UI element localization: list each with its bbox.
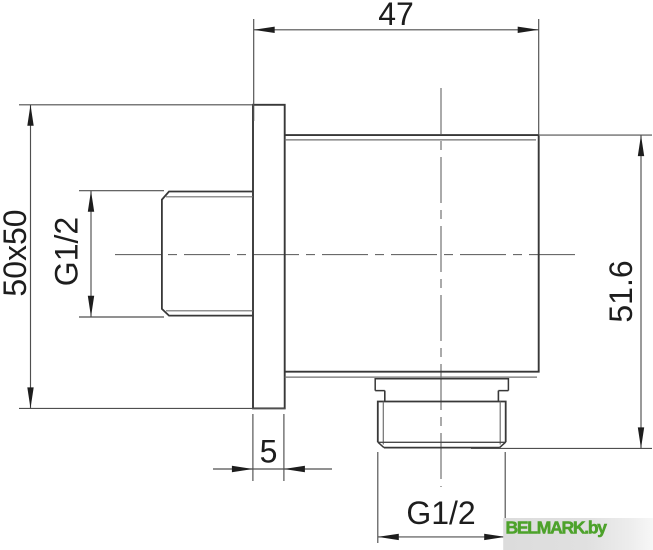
svg-text:47: 47 xyxy=(378,0,414,32)
dimension 47 xyxy=(254,19,539,135)
svg-text:BELMARK.by: BELMARK.by xyxy=(506,518,608,538)
svg-text:5: 5 xyxy=(260,434,278,470)
svg-text:51.6: 51.6 xyxy=(603,260,639,322)
svg-text:G1/2: G1/2 xyxy=(406,495,475,531)
body xyxy=(285,135,539,372)
bottom neck right xyxy=(497,391,499,402)
nipple bottom face xyxy=(384,447,500,449)
dimension 50x50 xyxy=(19,105,285,409)
bottom flange xyxy=(375,379,508,391)
wall plate xyxy=(253,105,285,409)
dimension G1/2 bottom xyxy=(378,452,505,543)
bottom nipple G1/2 xyxy=(378,402,506,443)
svg-text:G1/2: G1/2 xyxy=(49,217,85,286)
centerline horizontal xyxy=(115,254,577,256)
body top chamfer line xyxy=(285,139,536,141)
boss thread root line bottom xyxy=(166,310,253,312)
body bottom chamfer line xyxy=(285,376,537,378)
left thread boss G1/2 xyxy=(162,192,253,316)
nipple thread root line left xyxy=(382,402,384,445)
nipple chamfer left xyxy=(378,442,384,448)
boss thread root line top xyxy=(166,196,253,198)
centerline vertical xyxy=(440,88,442,487)
nipple chamfer circle line xyxy=(378,441,506,443)
bottom neck left xyxy=(384,391,386,402)
dimension 5 xyxy=(213,414,332,481)
dimension 51.6 xyxy=(471,135,652,448)
dimension G1/2 left xyxy=(79,191,164,317)
nipple thread root line right xyxy=(499,402,501,445)
nipple chamfer right xyxy=(500,442,506,448)
svg-text:50x50: 50x50 xyxy=(0,209,33,296)
